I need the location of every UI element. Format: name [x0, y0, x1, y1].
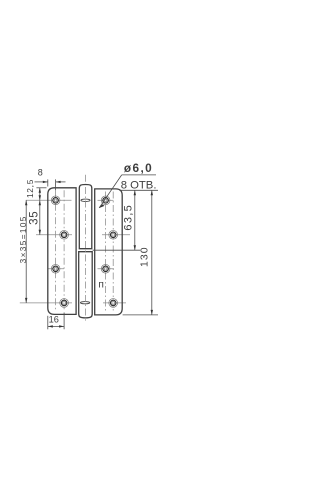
svg-text:63,5: 63,5 [123, 204, 135, 231]
pin top ellipse [81, 199, 90, 201]
dimension 16: extension lines [47, 316, 49, 330]
centerline right leaf hole column 1 [105, 192, 107, 313]
dimension 3x35=105: dimension line [25, 200, 27, 303]
hole R3 [101, 264, 110, 273]
dimension 63,5: dimension line [134, 190, 136, 250]
pin axis inside knuckle [85, 187, 87, 316]
centerline left leaf hole column 1 [55, 190, 57, 311]
left leaf [48, 188, 76, 315]
dimension 130: dimension line [151, 190, 153, 315]
centerline pin axis [85, 175, 87, 321]
hole L2 [60, 230, 69, 239]
leader arrow [99, 204, 105, 208]
svg-text:16: 16 [49, 314, 59, 324]
dimension 63,5: arrows [134, 190, 136, 195]
dimension 8: extension line at hole column [55, 179, 57, 190]
leader shelf [122, 174, 156, 176]
dimension 35: dimension line [39, 200, 41, 235]
hole L3 [51, 264, 60, 273]
bottom extension line for 130 [123, 314, 158, 316]
leader line to hole R1 [99, 175, 122, 208]
svg-text:12,5: 12,5 [25, 179, 35, 198]
hole centerline R2 [102, 234, 130, 236]
centerline left leaf hole column 2 [63, 190, 65, 311]
hole R2 [109, 230, 118, 239]
dimension 8: extension line at leaf edge [47, 179, 49, 186]
dimension 12,5: extension line of top edge [36, 187, 46, 189]
dimension 16: dimension line [48, 325, 64, 327]
centerline right leaf hole column 2 [112, 192, 114, 313]
right leaf [95, 189, 123, 315]
hole R4 [109, 299, 118, 308]
dimension 35: arrows [39, 200, 41, 205]
hole L1 [51, 196, 60, 205]
junction extension line for 63,5 [93, 249, 141, 251]
hole centerline R1 [98, 199, 114, 201]
dimension 12,5: arrows [39, 188, 41, 193]
hole centerline L1 [26, 199, 72, 201]
hole centerline R3 [98, 268, 115, 270]
lower knuckle [79, 252, 93, 318]
svg-text:ø6,0: ø6,0 [124, 161, 153, 175]
screw holes [51, 196, 117, 307]
dimension 16: arrows [48, 325, 53, 327]
hole centerline L4 [20, 302, 72, 304]
hole L4 [60, 299, 69, 308]
hole centerline L2 [36, 234, 72, 236]
upper knuckle [79, 185, 92, 249]
svg-text:3×35=105: 3×35=105 [19, 215, 28, 263]
svg-text:п: п [98, 280, 104, 291]
pin bottom ellipse [80, 302, 89, 304]
top extension line (under 8 OTV) [119, 189, 158, 191]
svg-text:8 ОТВ.: 8 ОТВ. [121, 179, 157, 191]
hole centerline R4 [103, 302, 126, 304]
dimension 8: dimension line [35, 181, 48, 183]
hole R1 [101, 196, 110, 205]
svg-text:35: 35 [29, 210, 41, 224]
dimension 12,5: dimension line [39, 188, 41, 201]
dimension 130: arrows [151, 190, 153, 195]
dimension 3x35=105: arrows [25, 200, 27, 205]
svg-text:8: 8 [38, 168, 43, 178]
svg-text:130: 130 [140, 246, 151, 267]
dimension 8: arrows [43, 181, 48, 183]
hole centerline L3 [48, 268, 64, 270]
